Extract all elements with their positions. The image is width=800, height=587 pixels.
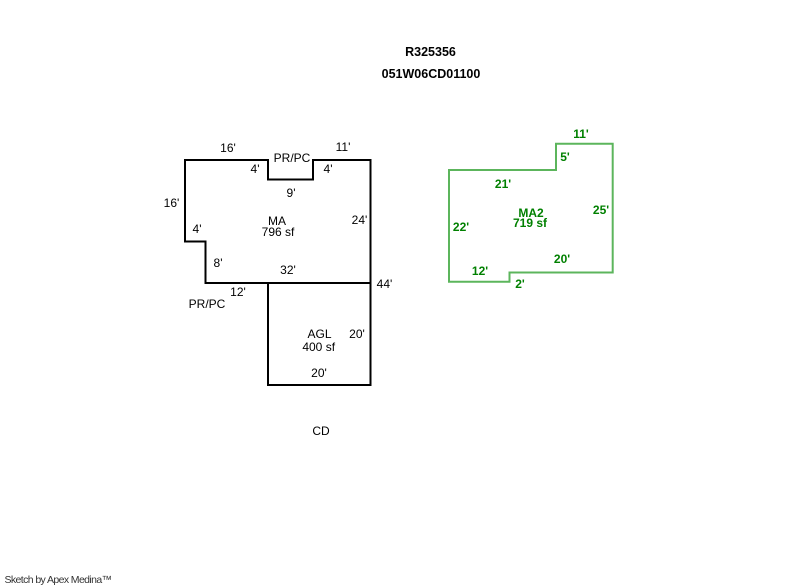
dim 8' bbox=[214, 257, 223, 269]
label AGL bbox=[307, 328, 331, 340]
dim 4' notch right bbox=[324, 163, 333, 175]
label MA bbox=[268, 215, 286, 227]
dim 4' notch left bbox=[251, 163, 260, 175]
label 719 sf bbox=[513, 217, 547, 229]
dim 2' green bbox=[515, 278, 525, 290]
dim 24' right bbox=[352, 214, 368, 226]
dim 20' green bbox=[554, 253, 570, 265]
dim 11' green top bbox=[573, 128, 589, 140]
label PR/PC bottom bbox=[189, 298, 226, 310]
dim 44' bbox=[377, 278, 393, 290]
label PR/PC top bbox=[274, 152, 311, 164]
AGL outline (black garage box) bbox=[268, 283, 371, 385]
dim 25' green bbox=[593, 204, 609, 216]
title R325356 bbox=[405, 46, 456, 59]
dim 16' left bbox=[164, 197, 180, 209]
dim 12' bbox=[230, 286, 246, 298]
label 400 sf bbox=[302, 341, 335, 353]
dim 32' bbox=[280, 264, 296, 276]
dim 20' AGL right bbox=[349, 328, 365, 340]
dim 5' green bbox=[560, 151, 570, 163]
dim 11' top bbox=[336, 141, 351, 153]
dim 4' left step bbox=[193, 223, 202, 235]
label 796 sf bbox=[262, 226, 295, 238]
title 051W06CD01100 bbox=[382, 67, 481, 80]
MA2 outline (green polygon) bbox=[449, 144, 613, 282]
label MA2 bbox=[518, 207, 543, 219]
dim 9' notch bottom bbox=[287, 187, 296, 199]
dim 21' green bbox=[495, 178, 511, 190]
MA outline (black main area polygon) bbox=[185, 160, 371, 283]
dim 16' top bbox=[220, 142, 236, 154]
dim 20' AGL bottom bbox=[311, 367, 327, 379]
dim 12' green bbox=[472, 265, 488, 277]
footer Sketch by Apex Medina bbox=[5, 575, 112, 586]
label CD bbox=[312, 425, 329, 437]
dim 22' green bbox=[453, 221, 469, 233]
